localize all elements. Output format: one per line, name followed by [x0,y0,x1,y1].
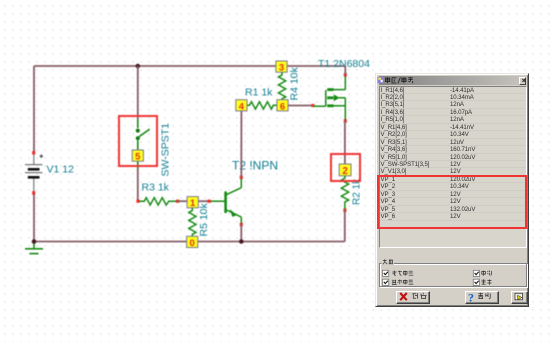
junction dot switch top [136,64,141,69]
svg-text:T2 !NPN: T2 !NPN [232,159,278,173]
node 3 box [276,61,287,74]
resistor R3 [138,198,178,205]
wire: top rail down to T1 drain [344,66,346,75]
svg-text:R1 1k: R1 1k [245,87,273,99]
svg-text:SW-SPST1: SW-SPST1 [160,123,172,177]
close button [519,77,527,85]
svg-text:0: 0 [190,238,195,249]
switch SW-SPST1 [138,119,150,150]
pin marker T1 drain [344,73,347,76]
pin marker R3 right [176,200,179,203]
annotation box around switch [119,116,157,166]
wire: node1 to T2 base [198,200,210,202]
title text 电压/电流 (drawn glyphs) [386,77,413,83]
svg-text:R3 1k: R3 1k [142,182,170,194]
small report button icon [515,293,523,300]
svg-text:1: 1 [190,198,196,209]
svg-text:5: 5 [135,152,141,163]
help button label 帮助 [478,293,490,299]
wire: switch/node5 down to R3 corner [137,169,139,201]
svg-text:6: 6 [280,101,285,112]
pin marker R3 left [137,200,140,203]
node 6 box [277,100,288,113]
node 5 box [132,150,143,163]
resistor R1 [247,102,278,109]
result list [379,86,527,248]
transistor T2 [209,177,241,224]
checkbox 电流 [473,270,479,276]
pin marker R2 bottom [344,209,347,212]
svg-text:2: 2 [342,166,348,177]
resistor R5 [189,208,196,237]
node 1 box [187,197,198,210]
annotation box around node 2 [331,154,360,181]
svg-text:T1 2N6804: T1 2N6804 [318,58,370,70]
cancel button label 取消 [412,293,426,299]
pin marker T1 source [344,120,347,123]
wire: node4 down to T2 collector [240,110,242,177]
svg-text:?: ? [468,291,474,305]
checkbox 输出 [473,279,479,285]
wire: top rail down to switch [137,66,139,119]
wire: left vertical top rail to V1 [33,66,35,153]
dialog window 电压/电流 [375,73,529,307]
title bar [379,76,525,85]
annotation red box around VP rows [377,175,527,229]
junction dot T2 emitter bottom rail [239,239,244,244]
checkbox 其它电压 [383,279,389,285]
svg-text:R5 10k: R5 10k [198,202,210,236]
cancel button [396,291,430,304]
help button [465,291,499,304]
group label 选项 [382,259,395,266]
pin marker T2 collector [240,176,243,179]
title icon [378,77,384,83]
resistor R4 [279,72,286,100]
close X [522,79,525,82]
junction dot ground [32,239,37,244]
node 0 box [187,236,198,249]
report button [511,291,528,304]
pin marker T1 gate [312,104,315,107]
svg-text:R4 10k: R4 10k [289,66,301,100]
svg-text:4: 4 [239,101,245,112]
wire: T2 emitter down to bottom rail [240,225,242,242]
pin marker T2 base [208,200,211,203]
pin marker V1 top [32,151,35,154]
wire: bottom rail horizontal [34,241,345,243]
transistor T1 MOSFET 2N6804 [313,75,345,121]
options group box [379,263,527,287]
svg-text:V1 12: V1 12 [47,164,75,176]
node 2 box [339,164,351,177]
wire: R2 down to bottom rail [344,210,346,241]
cancel button icon X [400,293,407,300]
wire: node6 to T1 gate [288,105,313,107]
checkbox 节点电压 [383,270,389,276]
svg-text:3: 3 [279,63,284,74]
wire: V1 bottom to ground junction [33,193,35,242]
pin marker T2 emitter [240,223,243,226]
resistor R2 [341,176,348,211]
wire: R3 to node 1 [178,200,188,202]
node 4 box [236,100,247,113]
pin marker V1 bottom [32,192,35,195]
battery V1 [25,153,43,193]
switch lower lead [137,162,139,170]
wire: top rail horizontal [34,65,345,67]
ground [25,242,43,254]
wire: T1 source down to node 2 [344,121,346,164]
